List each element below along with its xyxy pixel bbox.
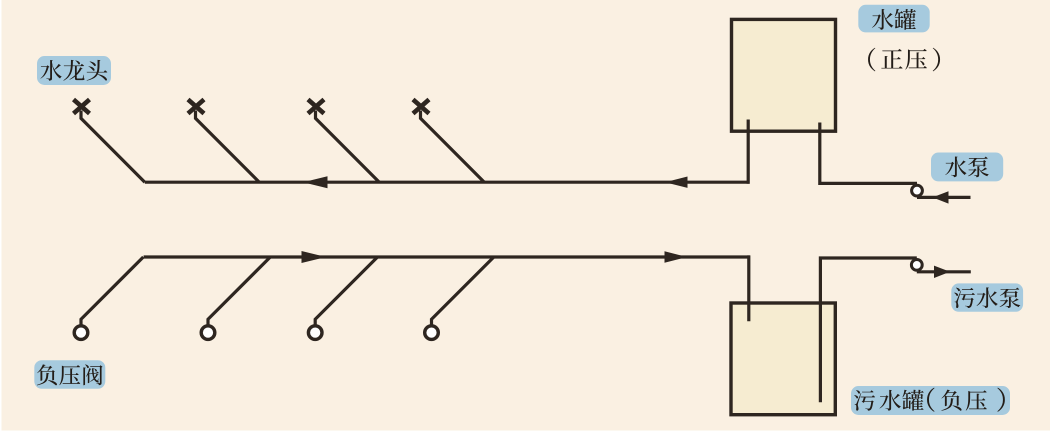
faucet tap symbol X2 (水龙头) — [188, 100, 204, 114]
flow arrow (right) on sewage pipe at x~313 — [302, 251, 327, 263]
vacuum valve circle V1 (负压阀) — [74, 326, 88, 340]
label 水罐 (water tank) — [858, 5, 929, 33]
wire: water pump suction line — [917, 196, 971, 199]
wire: main water supply pipe (horizontal) — [145, 181, 750, 184]
wire: faucet 3 drop stub + 45-deg branch to supply pipe — [316, 111, 380, 183]
water pump circle (水泵) — [912, 185, 923, 196]
faucet tap symbol X3 (水龙头) — [308, 100, 324, 114]
wire: faucet 4 drop stub + 45-deg branch to supply pipe — [421, 111, 485, 183]
wire: vacuum valve 3 stub + 45-deg branch up to sewage pipe — [315, 257, 377, 326]
label 水龙头 (faucet) — [37, 56, 111, 85]
wire: faucet 1 drop stub + 45-deg branch to supply pipe — [81, 111, 145, 183]
faucet tap symbol X1 (水龙头) — [74, 100, 90, 114]
label （正压） positive-pressure caption, plain text — [868, 48, 940, 72]
flow arrow (right) out of sewage pump — [934, 266, 950, 278]
wire: faucet 2 drop stub + 45-deg branch to supply pipe — [196, 111, 260, 183]
water tank 水罐 (positive pressure) — [732, 19, 836, 131]
wire: tank inlet pipe (right, down then right to water pump) — [820, 123, 917, 184]
label 水泵 (water pump) — [931, 153, 1003, 182]
flow arrow (left) on supply pipe at x~315 — [303, 176, 328, 188]
sewage pump circle (污水泵) — [911, 260, 922, 271]
flow arrow (right) on sewage pipe at x~675 — [665, 251, 688, 262]
wire: vacuum valve 4 stub + 45-deg branch up to sewage pipe — [432, 257, 494, 326]
vacuum valve circle V3 (负压阀) — [308, 326, 322, 340]
wire: vacuum valve 2 stub + 45-deg branch up to sewage pipe — [208, 257, 270, 326]
label 污水泵 (sewage pump) — [951, 283, 1023, 311]
wire: sewage tank suction dip pipe (up and right to sewage pump) — [820, 258, 916, 402]
flow arrow (left) into water pump — [933, 191, 949, 203]
vacuum valve circle V2 (负压阀) — [201, 326, 215, 340]
vacuum valve circle V4 (负压阀) — [425, 326, 439, 340]
wire: vacuum valve 1 stub + 45-deg branch up to sewage pipe — [81, 257, 143, 326]
wire: tank outlet pipe (left, down to supply pipe) — [747, 120, 750, 184]
wire: sewage tank inlet pipe (down from sewage pipe into tank) — [747, 255, 750, 321]
label 负压阀 (vacuum valve) — [34, 360, 105, 389]
label 污水罐（负压） (sewage tank, negative pressure) — [851, 386, 1010, 415]
flow arrow (left) on supply pipe at x~676 — [665, 177, 688, 188]
wire: main sewage pipe (horizontal) — [144, 255, 750, 258]
faucet tap symbol X4 (水龙头) — [413, 100, 429, 114]
sewage tank 污水罐 (negative pressure) — [731, 303, 835, 415]
wire: sewage pump discharge line — [917, 270, 971, 273]
